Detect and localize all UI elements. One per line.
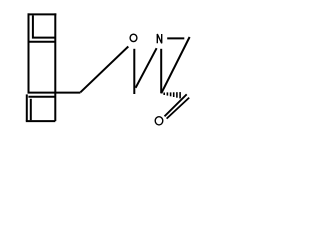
aziridine bond N down to CH: [160, 49, 162, 94]
ring left edge (long): [28, 13, 30, 92]
atom O ether: [130, 34, 137, 41]
atom N: [157, 34, 161, 43]
bottom ring inner left line: [30, 99, 32, 120]
hashed wedge bond CH to CHO: [164, 92, 180, 98]
ring top edge: [28, 13, 57, 15]
atom O carbonyl: [155, 117, 163, 125]
bottom ring outer left edge: [26, 94, 28, 121]
shared ring edge: [28, 41, 56, 43]
bond O to CH3 (vertical): [133, 49, 135, 94]
inner double-bond L (top ring): [33, 15, 55, 37]
inner line (bottom ring top): [28, 96, 55, 98]
bottom ring bottom edge: [26, 120, 56, 122]
bond N to CH3 (diagonal): [136, 48, 157, 88]
bond N to CH2 (horizontal): [167, 37, 184, 39]
wire bond CH2 to O: [80, 47, 128, 93]
C=O double bond: [165, 94, 190, 118]
middle ring bottom edge + chain bond: [28, 92, 81, 94]
aziridine ring diagonal CH2-CH: [161, 37, 189, 93]
ring right edge (long): [54, 13, 56, 121]
